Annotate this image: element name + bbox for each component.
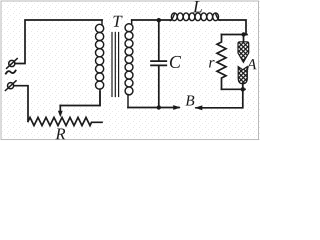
inductor L: [170, 13, 220, 21]
terminal upper (input): [7, 59, 18, 69]
arrowhead pointing left at B: [195, 105, 203, 110]
wire terminal-up to transformer top: [15, 20, 102, 64]
node junction dot bottom-right: [241, 87, 245, 91]
capacitor C: [151, 20, 166, 108]
transformer core: [112, 33, 119, 97]
node junction dot top-right: [241, 32, 245, 36]
wire secondary top to L: [132, 19, 171, 21]
label T: [113, 16, 122, 27]
parallel branch top rail: [222, 34, 248, 36]
wire right side down to bottom: [196, 89, 243, 108]
label A: [246, 59, 256, 69]
label C: [170, 56, 181, 68]
terminal lower (input): [5, 81, 16, 91]
rheostat R zigzag: [28, 117, 102, 125]
parallel branch bottom rail: [222, 88, 246, 90]
resistor r vertical zigzag: [217, 35, 226, 90]
wire terminal-low to rheostat: [14, 86, 28, 121]
faint scan border: [1, 1, 259, 140]
spark gap A upper electrode: [238, 37, 249, 63]
arrowhead pointing right at B: [173, 105, 181, 110]
label L: [193, 1, 202, 12]
node junction dot top (capacitor tap): [157, 18, 161, 22]
rheostat wiper arrow: [58, 106, 63, 118]
AC source tilde: [6, 71, 16, 74]
label r: [209, 60, 215, 67]
bottom wire left segment: [128, 107, 179, 109]
node junction dot bottom (capacitor): [157, 105, 161, 109]
wire wiper to transformer primary bottom: [60, 92, 100, 106]
spark gap A lower electrode: [238, 67, 247, 90]
label R: [55, 128, 65, 139]
label B: [186, 96, 195, 106]
transformer secondary coil: [125, 20, 133, 108]
transformer T primary coil: [96, 20, 104, 106]
wire L to right corner down: [219, 20, 246, 35]
